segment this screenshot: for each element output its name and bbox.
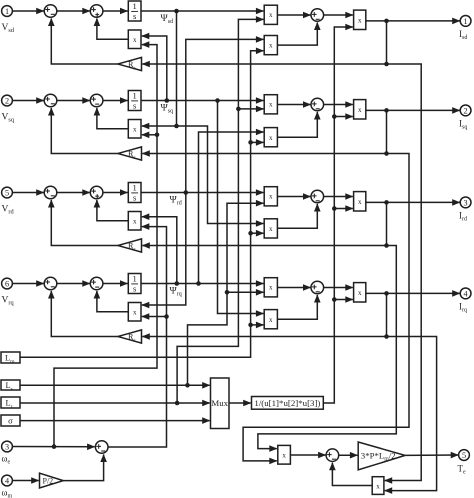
output port 5 T_e — [459, 450, 470, 461]
integrator 1/s row 4 (Psi_rq) — [128, 273, 141, 293]
wire Psi_sq to row1 product (junction on row2 line) — [142, 36, 169, 103]
svg-text:1: 1 — [133, 182, 137, 192]
svg-text:x: x — [282, 452, 286, 460]
wire product to sum bottom row 3 — [277, 204, 317, 228]
product block row 3 (L times Psi) — [264, 187, 277, 206]
input port 3 omega_e — [2, 441, 13, 452]
wire R_r output to sum row 3 — [51, 200, 118, 246]
sum junction row 1 (V minus R*I) — [44, 5, 57, 18]
wire T_e output — [405, 454, 458, 456]
wire sum to product row 4 — [324, 287, 353, 289]
wire I_rq output row 4 — [366, 291, 460, 296]
svg-text:1/(u[1]*u[2]*u[3]): 1/(u[1]*u[2]*u[3]) — [254, 398, 320, 408]
product block row 3 (omega coupling) — [128, 212, 141, 231]
svg-text:5: 5 — [462, 451, 466, 460]
svg-text:2: 2 — [5, 97, 9, 106]
sum junction row 3 (V minus R*I) — [44, 186, 57, 199]
svg-text:6: 6 — [5, 280, 9, 289]
svg-text:x: x — [133, 218, 137, 226]
wire sum to product row 2 — [324, 104, 353, 106]
wire Fcn output riser to final products — [323, 27, 353, 403]
wire product to sum row 4 — [277, 287, 310, 289]
svg-text:3: 3 — [5, 443, 9, 452]
wire Psi_rd to row1 product and row4 product (junction on row3 line) — [142, 39, 264, 305]
wire sum to integrator row 4 — [103, 283, 128, 285]
label I_rq — [459, 302, 467, 314]
label Psi_rq — [170, 286, 182, 298]
svg-text:5: 5 — [5, 189, 9, 198]
svg-text:x: x — [358, 289, 362, 297]
svg-text:2: 2 — [464, 106, 468, 115]
wire V_rq to sum — [12, 283, 43, 285]
wire omega_e to slip sum — [12, 444, 94, 449]
product block row 2 (Lm times Psi) — [264, 128, 277, 147]
label V_rd — [2, 204, 15, 215]
sum junction row 3 (add omega coupling) — [90, 186, 103, 199]
svg-text:x: x — [133, 309, 137, 317]
input port 4 omega_m — [2, 475, 13, 486]
label V_rq — [2, 295, 15, 306]
svg-text:1: 1 — [133, 1, 137, 11]
label I_sd — [459, 29, 467, 41]
label V_sq — [2, 112, 15, 123]
wire sum to product row 3 — [324, 196, 353, 198]
input port 5 V_rd — [2, 187, 13, 198]
wire product to sum bottom row 2 — [277, 112, 317, 137]
wire Psi_rd line row 3 — [141, 192, 263, 194]
sum junction row 1 (flux difference) — [311, 9, 324, 22]
svg-text:x: x — [358, 17, 362, 25]
wire L_s riser to rows 3-4 products — [188, 203, 264, 385]
label V_sd — [2, 23, 15, 34]
gain R_s row 1 — [118, 57, 142, 71]
svg-text:4: 4 — [5, 477, 9, 486]
product block row 3 (multiply by 1/(sigma Ls Lr)) — [354, 192, 366, 211]
wire product to sum bottom row 3 — [97, 200, 128, 221]
wire I_rd feedback to R_r row 3 — [142, 202, 389, 247]
wire Psi_rq line row 4 — [141, 283, 263, 285]
wire sum to product row 1 — [324, 14, 353, 16]
label omega_m — [2, 488, 13, 498]
svg-text:1: 1 — [133, 90, 137, 100]
product block row 3 (Lm times Psi) — [264, 219, 277, 238]
output port 1 I_sd — [460, 16, 471, 27]
sum junction row 4 (flux difference) — [311, 281, 324, 294]
wire I_sq output row 2 — [366, 108, 460, 113]
product block torque (I_sq times I_rd) — [278, 445, 291, 464]
wire sum to integrator row 1 — [103, 10, 128, 12]
svg-text:Mux: Mux — [211, 398, 228, 408]
sum junction row 4 (add omega coupling) — [90, 277, 103, 290]
svg-text:x: x — [269, 11, 273, 19]
product block row 2 (multiply by 1/(sigma Ls Lr)) — [354, 100, 366, 119]
wire I_rd output row 3 — [366, 200, 460, 205]
label T_e — [458, 464, 467, 476]
wire R_s output to sum row 2 — [51, 108, 118, 154]
wire L_r riser to rows 1-2 products — [177, 19, 263, 403]
wire omega_e riser to rows 1-2 products — [54, 45, 159, 447]
product block row 4 (L times Psi) — [264, 278, 277, 297]
wire sum to integrator row 2 — [103, 100, 128, 102]
svg-text:x: x — [376, 483, 380, 491]
wire sigma to Mux — [20, 420, 210, 422]
wire Psi_rq to row2 product (second junction on row4 line) — [196, 132, 263, 286]
input port 6 V_rq — [2, 278, 13, 289]
output port 3 I_rd — [460, 197, 471, 208]
svg-text:x: x — [358, 198, 362, 206]
wire P/2 to slip sum bottom — [63, 455, 103, 481]
wire L_m to products — [20, 51, 263, 358]
wire sum to sum row 1 — [57, 10, 90, 12]
gain R_s row 2 — [118, 147, 142, 161]
Fcn block 1/(u[1]*u[2]*u[3]) — [252, 397, 324, 410]
wire product to sum bottom row 4 — [277, 295, 317, 319]
product block row 1 (Lm times Psi) — [264, 36, 277, 55]
wire I_sd output row 1 — [366, 19, 460, 24]
wire V_sq to sum — [12, 100, 43, 102]
constant block L_r — [1, 397, 20, 410]
wire product to sum row 3 — [277, 196, 310, 198]
sum junction row 4 (V minus R*I) — [44, 277, 57, 290]
svg-text:x: x — [269, 316, 273, 324]
svg-text:x: x — [269, 42, 273, 50]
gain 3*P*Lm/2 — [358, 442, 405, 470]
wire torque product to sum — [290, 454, 325, 456]
svg-text:1: 1 — [464, 17, 468, 26]
sum junction row 3 (flux difference) — [311, 190, 324, 203]
product block row 2 (omega coupling) — [128, 120, 141, 139]
wire sum to integrator row 3 — [103, 192, 128, 194]
svg-text:x: x — [269, 225, 273, 233]
wire product to sum bottom row 2 — [97, 108, 128, 129]
svg-text:3: 3 — [464, 198, 468, 207]
gain R_r row 3 — [118, 239, 142, 253]
svg-text:x: x — [269, 193, 273, 201]
wire L_r to Mux — [20, 401, 210, 406]
product block row 1 (multiply by 1/(sigma Ls Lr)) — [354, 10, 366, 29]
product block row 4 (multiply by 1/(sigma Ls Lr)) — [354, 283, 366, 302]
label Psi_sd — [161, 13, 174, 25]
product block row 2 (L times Psi) — [264, 95, 277, 114]
wire I_sd feedback to R_s row 1 — [142, 21, 389, 66]
wire sum to sum row 3 — [57, 192, 90, 194]
wire Psi_sd line row 1 — [141, 10, 263, 12]
input port 1 V_sd — [2, 6, 13, 17]
integrator 1/s row 1 (Psi_sd) — [128, 1, 141, 21]
svg-text:x: x — [269, 134, 273, 142]
wire slip riser to rows 3-4 products — [108, 227, 169, 447]
svg-text:σ: σ — [8, 416, 13, 426]
product block row 1 (L times Psi) — [264, 5, 277, 24]
svg-text:1: 1 — [133, 273, 137, 283]
wire V_sd to sum — [12, 10, 43, 12]
wire sum to gain — [339, 454, 358, 456]
wire I_rq feedback to R_r row 4 — [142, 293, 389, 338]
wire R_s output to sum row 1 — [51, 19, 118, 65]
output port 4 I_rq — [460, 288, 471, 299]
wire product to sum bottom row 1 — [277, 23, 317, 46]
wire product to sum bottom row 1 — [97, 19, 128, 40]
svg-text:4: 4 — [464, 289, 468, 298]
sum junction slip (omega_e minus P/2 omega_m) — [95, 441, 108, 454]
wire sum to sum row 2 — [57, 100, 90, 102]
sum junction torque — [326, 449, 339, 462]
wire Mux to Fcn — [229, 402, 251, 404]
wire Psi_sd to row2 product and row3 product — [142, 9, 264, 224]
wire L_s to Mux — [20, 383, 210, 388]
svg-text:x: x — [269, 284, 273, 292]
svg-text:x: x — [269, 101, 273, 109]
constant block L_s — [1, 380, 20, 392]
sum junction row 2 (flux difference) — [311, 98, 324, 111]
svg-text:P/2: P/2 — [43, 477, 54, 486]
constant block sigma — [1, 415, 20, 426]
svg-text:1: 1 — [5, 7, 9, 16]
wire I_rq to torque product — [385, 337, 437, 491]
wire V_rd to sum — [12, 192, 43, 194]
product block row 4 (omega coupling) — [128, 303, 141, 322]
svg-text:x: x — [133, 36, 137, 44]
wire omega_m to gain — [12, 480, 38, 482]
sum junction row 1 (add omega coupling) — [90, 5, 103, 18]
product block torque (I_sd times I_rq) — [372, 477, 384, 495]
wire I_sd to torque product — [385, 64, 422, 481]
product block row 1 (omega coupling) — [128, 30, 141, 49]
wire Psi_rq to row3 product (junction on row4 line) — [142, 217, 179, 286]
svg-text:x: x — [133, 126, 137, 134]
label I_sq — [459, 119, 467, 131]
wire torque product 2 to sum bottom — [332, 463, 372, 486]
sum junction row 2 (add omega coupling) — [90, 94, 103, 107]
wire product to sum row 2 — [277, 104, 310, 106]
integrator 1/s row 2 (Psi_sq) — [128, 90, 141, 110]
wire I_sq to torque product — [243, 154, 409, 461]
wire Psi_sq to row4 product (second junction on row2 line) — [215, 98, 263, 313]
Mux block — [211, 378, 230, 429]
gain P/2 — [40, 473, 64, 488]
label Psi_rd — [170, 195, 182, 207]
wire product to sum row 1 — [277, 14, 310, 16]
wire I_rd to torque product — [258, 246, 396, 449]
wire Psi_sq line row 2 — [141, 100, 263, 102]
product block row 4 (Lm times Psi) — [264, 310, 277, 329]
svg-text:x: x — [358, 106, 362, 114]
constant block L_m — [1, 352, 20, 365]
label Psi_sq — [161, 103, 174, 115]
integrator 1/s row 3 (Psi_rd) — [128, 182, 141, 202]
wire product to sum bottom row 4 — [97, 291, 128, 312]
label omega_e — [2, 454, 11, 466]
output port 2 I_sq — [460, 105, 471, 116]
gain R_r row 4 — [118, 330, 142, 344]
wire R_r output to sum row 4 — [51, 291, 118, 337]
input port 2 V_sq — [2, 95, 13, 106]
label I_rd — [459, 211, 467, 223]
sum junction row 2 (V minus R*I) — [44, 94, 57, 107]
wire sum to sum row 4 — [57, 283, 90, 285]
wire I_sq feedback to R_s row 2 — [142, 110, 389, 155]
